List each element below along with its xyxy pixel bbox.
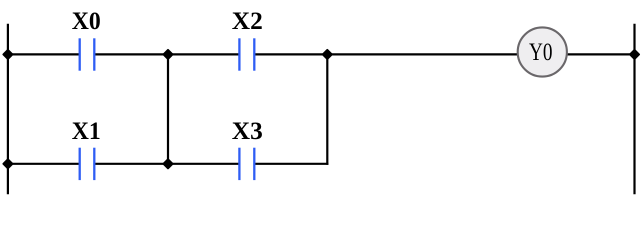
wire: top rung, left rail to contact X0	[8, 53, 80, 55]
node: left rail / bottom rung junction	[3, 159, 12, 168]
contact X3	[232, 117, 263, 180]
svg-text:Y0: Y0	[529, 39, 553, 66]
node: top rung / middle branch junction	[164, 50, 173, 59]
wire: top rung, contact X2 to coil Y0	[254, 53, 517, 55]
svg-text:X0: X0	[72, 7, 101, 35]
wire: right branch vertical	[326, 54, 328, 164]
node: left rail / top rung junction	[3, 50, 12, 59]
wire: top rung, coil Y0 to right rail	[567, 53, 634, 55]
coil Y0	[518, 27, 567, 76]
node: top rung / right branch junction	[323, 50, 332, 59]
contact X0	[72, 7, 101, 71]
wire: middle branch vertical	[167, 54, 169, 163]
right power rail	[633, 24, 635, 195]
left power rail	[7, 24, 9, 195]
svg-text:X3: X3	[232, 117, 263, 145]
wire: bottom rung, left rail to contact X1	[8, 163, 80, 165]
node: right rail / top rung junction	[630, 50, 639, 59]
node: bottom rung / middle branch junction	[164, 159, 173, 168]
wire: top rung, contact X0 to contact X2	[94, 53, 239, 55]
wire: bottom rung, contact X3 to right branch corner	[254, 163, 328, 165]
svg-text:X1: X1	[72, 117, 101, 145]
contact X1	[72, 117, 101, 180]
wire: bottom rung, contact X1 to contact X3	[94, 163, 239, 165]
contact X2	[232, 7, 263, 71]
svg-text:X2: X2	[232, 7, 263, 35]
